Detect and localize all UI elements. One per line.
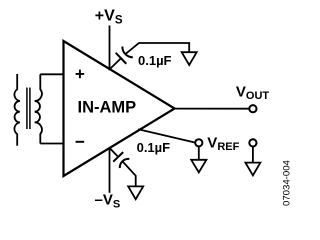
wire VREF <box>138 129 195 142</box>
op-amp U1 IN-AMP triangle <box>64 41 175 176</box>
capacitor C1 0.1uF (supply decoupling, top) <box>104 46 133 74</box>
wire noninverting input <box>40 73 64 75</box>
svg-text:07034-004: 07034-004 <box>282 159 293 206</box>
transformer T1 secondary winding with leads <box>35 74 42 143</box>
node VREF terminal <box>195 139 202 146</box>
ground (VREF) <box>191 160 206 173</box>
ground (output common) <box>245 163 260 176</box>
ground (C2) <box>128 186 143 199</box>
wire inverting input <box>40 143 64 145</box>
transformer T1 core <box>27 88 30 130</box>
node VOUT terminal <box>249 105 256 112</box>
wire C1 to ground <box>126 43 190 54</box>
svg-text:0.1µF: 0.1µF <box>137 140 171 155</box>
wire output common to ground <box>252 146 254 163</box>
node output common terminal <box>249 139 256 146</box>
op-amp inverting input marker - <box>76 141 85 143</box>
wire C2 to ground <box>123 162 136 188</box>
capacitor C2 0.1uF (supply decoupling, bottom) <box>105 143 130 168</box>
svg-text:IN-AMP: IN-AMP <box>78 99 137 117</box>
ground (C1) <box>182 52 197 65</box>
transformer T1 primary winding with leads <box>14 74 19 146</box>
svg-text:0.1µF: 0.1µF <box>138 53 172 68</box>
wire VREF to ground <box>198 146 200 160</box>
wire output <box>175 108 250 110</box>
op-amp noninverting input marker + <box>76 70 85 79</box>
+VS supply line <box>109 26 111 71</box>
-VS supply line <box>109 148 111 193</box>
